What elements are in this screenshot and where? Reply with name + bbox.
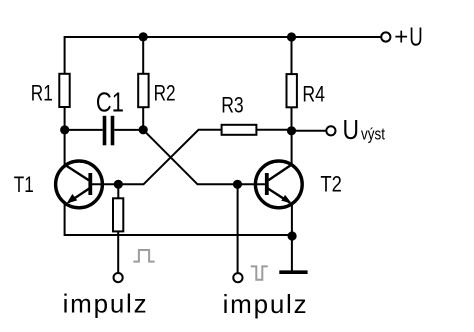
svg-text:R3: R3 [221, 92, 244, 117]
svg-text:R4: R4 [302, 82, 325, 107]
svg-text:výst: výst [361, 125, 385, 144]
svg-text:U: U [409, 22, 423, 52]
svg-text:C1: C1 [96, 87, 124, 118]
svg-text:impulz: impulz [223, 289, 307, 319]
svg-text:T1: T1 [14, 172, 34, 197]
svg-text:impulz: impulz [63, 289, 147, 319]
svg-text:+: + [394, 24, 408, 51]
svg-text:T2: T2 [320, 172, 342, 197]
svg-text:R1: R1 [31, 80, 53, 105]
svg-text:U: U [343, 114, 360, 145]
svg-text:R2: R2 [154, 80, 176, 105]
